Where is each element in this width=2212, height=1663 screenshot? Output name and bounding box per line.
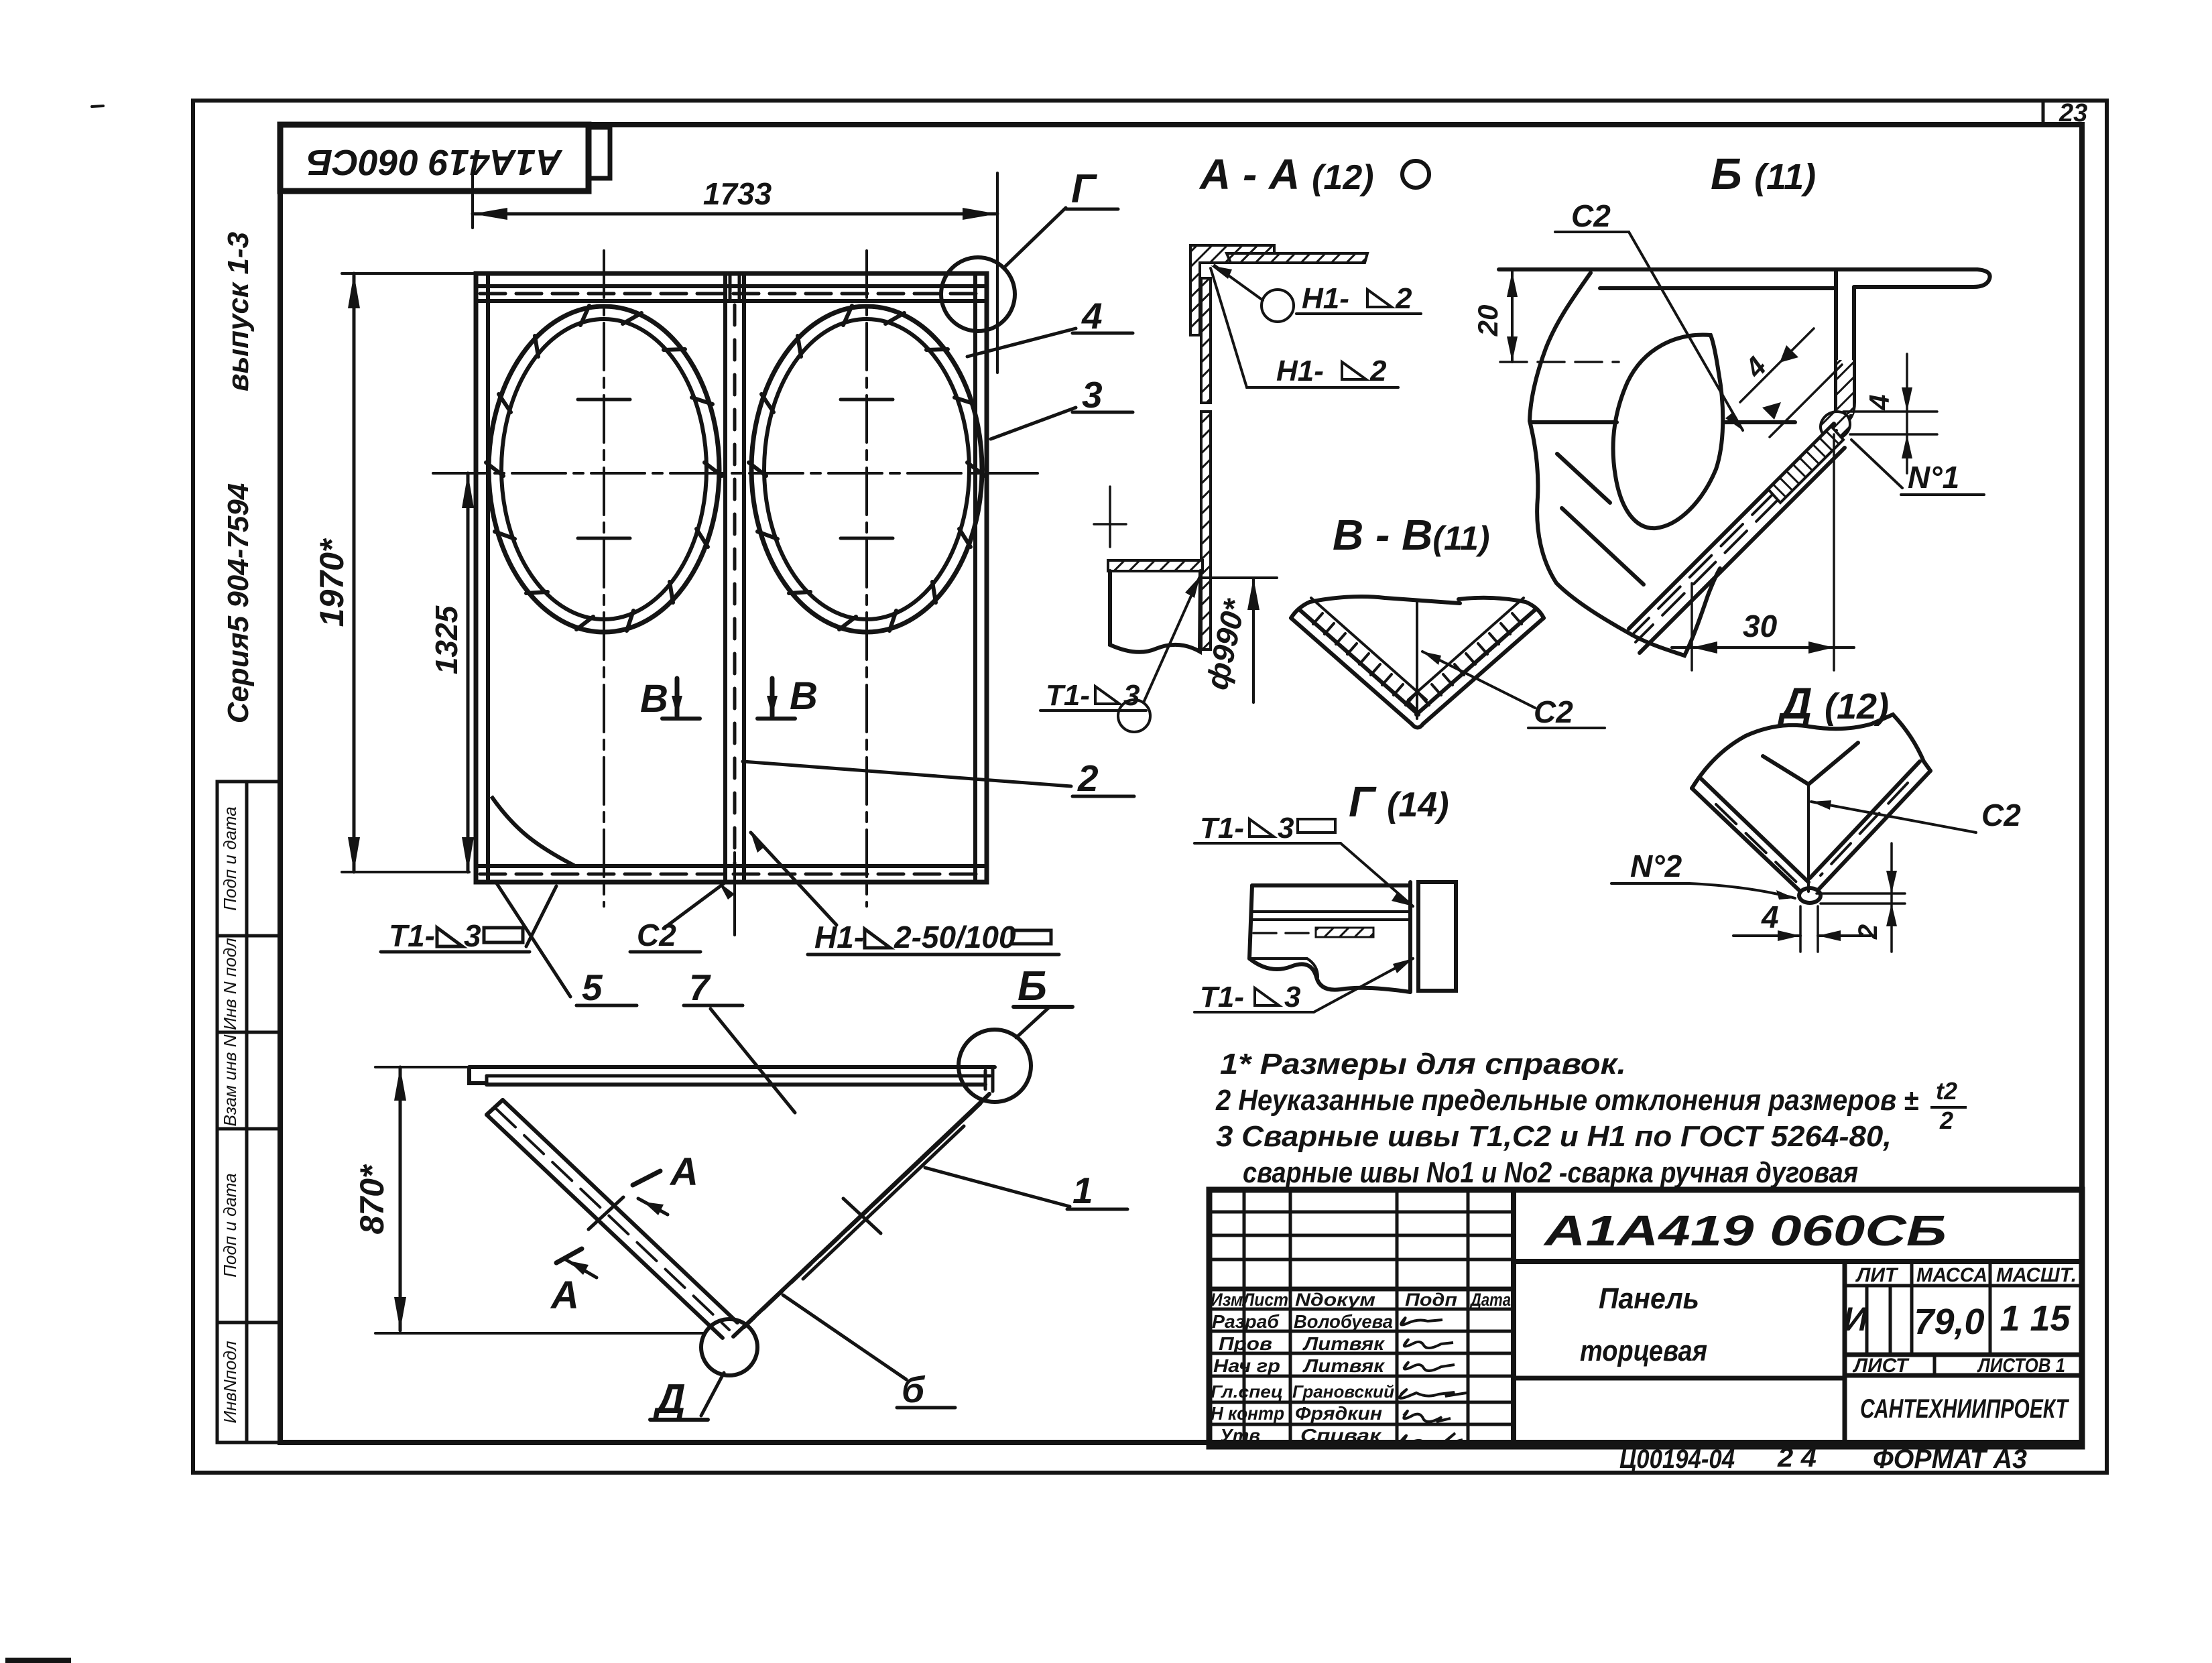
dim 1325 line	[467, 473, 470, 872]
weld label T1-d3 under panel	[389, 918, 435, 953]
sheet break wavy line bottom-left of panel	[491, 796, 575, 866]
panel outer rectangle	[476, 273, 987, 882]
top-left stamp box	[280, 125, 589, 191]
dim 2 at apex right	[1817, 892, 1905, 895]
left arm lower line	[487, 1115, 723, 1338]
lit/massa/masht column	[1843, 1261, 1847, 1446]
svg-text:б: б	[902, 1369, 926, 1410]
title block texts	[1211, 1207, 2077, 1446]
right arm top edge wavy	[1459, 598, 1544, 618]
stamp text A1A419 060SB rotated 180	[307, 142, 563, 182]
top bar mid line	[487, 1074, 990, 1078]
svg-text:1: 1	[1072, 1170, 1093, 1211]
title B (11)	[1711, 149, 1816, 198]
bottom sheet broken piece	[1110, 571, 1201, 652]
svg-text:Волобуева: Волобуева	[1294, 1311, 1393, 1332]
angle corner piece horizontal (hatched)	[1190, 245, 1274, 335]
dim 4 right vertical	[1906, 354, 1908, 473]
N1 leader to divider	[751, 833, 837, 925]
detail circle G at panel top right corner	[941, 257, 1015, 331]
S2 leader to divider bottom	[664, 883, 724, 928]
leader b to right arm	[783, 1295, 906, 1379]
ellipse 2 inner ring	[764, 319, 969, 619]
right plate outer edge	[1818, 771, 1930, 890]
V notch inner edges	[1763, 743, 1858, 784]
svg-text:Фрядкин: Фрядкин	[1295, 1403, 1382, 1424]
drawing inner frame	[280, 125, 2082, 1442]
leader 7 to top bar	[711, 1009, 795, 1113]
svg-text:Дата: Дата	[1469, 1290, 1511, 1310]
vertical web upper part (hatched)	[1201, 278, 1211, 403]
ellipse 1 lower focus cross	[578, 537, 630, 540]
bottom strip top line	[476, 864, 987, 868]
leader item 3	[991, 408, 1076, 439]
svg-text:Т1-: Т1-	[1200, 981, 1244, 1013]
label 2 with underline	[1077, 757, 1099, 799]
vertical lip left line	[1834, 269, 1838, 434]
bottom horizontal member (hatched)	[1108, 560, 1203, 571]
straight edge right segment	[1725, 420, 1795, 424]
arrow up	[348, 273, 360, 308]
dim 870 top ext	[375, 1066, 483, 1068]
arrow right	[963, 208, 997, 220]
label H1-d2 second	[1276, 355, 1324, 387]
right plate inner edge	[1810, 761, 1920, 878]
vertical lip right line with bottom curl	[1837, 287, 1854, 426]
svg-text:Нач гр: Нач гр	[1213, 1355, 1280, 1376]
svg-text:ЛИТ: ЛИТ	[1855, 1264, 1899, 1286]
S2 leader arrow to center	[1422, 652, 1535, 708]
ellipse 1 outer ring	[489, 306, 719, 632]
left plate inner edge	[1701, 779, 1808, 882]
svg-text:2: 2	[1077, 757, 1099, 799]
top strip dashed centerline	[480, 292, 983, 296]
svg-text:В: В	[790, 674, 818, 718]
right arm ladder rungs	[1512, 613, 1522, 624]
svg-text:МАСШТ.: МАСШТ.	[1996, 1264, 2077, 1286]
divider tick top strip	[729, 275, 732, 301]
svg-text:Утв: Утв	[1220, 1425, 1260, 1446]
svg-text:Инв N подл: Инв N подл	[220, 938, 240, 1030]
svg-text:2 Неуказанные предельные откло: 2 Неуказанные предельные отклонения разм…	[1215, 1084, 1918, 1117]
svg-text:3 Сварные швы Т1,С2 и Н1 по: 3 Сварные швы Т1,С2 и Н1 по ГОСТ 5264-80…	[1216, 1120, 1892, 1153]
left margin cells table	[217, 782, 280, 1442]
weld triangle symbol	[437, 928, 463, 946]
weld strip hatched	[1316, 928, 1373, 937]
scan artifact bar bottom-left	[5, 1658, 71, 1663]
svg-text:ИзмЛист: ИзмЛист	[1211, 1290, 1288, 1310]
svg-text:3: 3	[1284, 981, 1300, 1013]
weld tick marks ellipse 2	[749, 306, 985, 631]
right arm outer line	[1423, 618, 1544, 724]
svg-text:Взам инв N: Взам инв N	[220, 1034, 240, 1126]
diagonal fold lines bottom-left	[1557, 454, 1610, 503]
left margin vertical text: vypusk 1-3	[222, 232, 255, 391]
svg-text:t2: t2	[1936, 1077, 1957, 1105]
svg-text:1* Размеры для справок.: 1* Размеры для справок.	[1220, 1048, 1626, 1081]
svg-text:Д: Д	[652, 1376, 686, 1422]
label 7 with underline	[689, 967, 711, 1008]
svg-text:Подп и дата: Подп и дата	[220, 1173, 240, 1278]
right arm section tick	[843, 1198, 881, 1233]
label D with underline	[652, 1376, 686, 1422]
svg-text:2: 2	[1369, 355, 1387, 387]
label N1	[1851, 440, 1902, 488]
S2 label with leader	[1811, 802, 1976, 833]
fraction bar	[1930, 1106, 1967, 1109]
left table / title area divider	[1511, 1190, 1516, 1446]
S2 label top with long leader	[1571, 198, 1611, 233]
inner horizontal lines	[1251, 910, 1410, 913]
ellipse 2 upper focus cross	[841, 398, 893, 402]
central divider left line	[723, 273, 727, 882]
section A lower mark	[556, 1249, 582, 1263]
title D (12)	[1777, 678, 1889, 728]
top wavy edge	[1745, 715, 1930, 771]
section symbol circle	[1402, 161, 1429, 188]
flange lower line	[1600, 286, 1836, 290]
svg-text:Подп: Подп	[1405, 1290, 1458, 1310]
right arm top cap	[971, 1094, 989, 1113]
dim text 870*	[353, 1164, 391, 1234]
straight edge left segment	[1530, 420, 1617, 424]
svg-text:ФОРМАТ А3: ФОРМАТ А3	[1873, 1444, 2027, 1474]
left arm inner line	[1311, 598, 1426, 700]
centerline cross above member	[1109, 487, 1111, 547]
page number box 23	[2042, 101, 2045, 125]
dim f990 vertical line	[1252, 578, 1255, 702]
corner arrow	[1211, 265, 1232, 279]
section A upper mark	[633, 1171, 660, 1185]
svg-text:79,0: 79,0	[1914, 1302, 1984, 1342]
dim 20 top ext	[1500, 268, 1562, 271]
center vertical line	[1416, 602, 1418, 719]
divider bottom cross ext	[733, 853, 736, 935]
svg-text:Грановский: Грановский	[1292, 1381, 1394, 1402]
left arm dashed center	[496, 1109, 729, 1330]
title G (14)	[1349, 778, 1449, 826]
dashed lines in arms	[1716, 804, 1796, 882]
leader second to corner	[1211, 268, 1271, 387]
ellipse 1 inner ring	[501, 319, 706, 619]
label 3 with underline	[1082, 374, 1103, 416]
apex tip	[1412, 724, 1423, 728]
right arm lower line	[733, 1113, 971, 1337]
label T1-d3 (bottom)	[1200, 981, 1244, 1013]
svg-text:4: 4	[1863, 394, 1895, 410]
left plate outer edge	[1692, 788, 1800, 891]
dim 4 at apex	[1799, 906, 1802, 952]
leader from bottom label to block	[1314, 959, 1413, 1012]
svg-text:Литвяк: Литвяк	[1302, 1355, 1386, 1376]
left arm top cap	[487, 1100, 503, 1115]
svg-text:1733: 1733	[703, 176, 772, 211]
section mark V right: letter	[790, 674, 818, 718]
svg-text:4: 4	[1761, 900, 1779, 934]
bottom broken cut	[1249, 959, 1410, 992]
small arrow on divider bottom	[719, 882, 735, 900]
svg-text:Серия5 904-7594: Серия5 904-7594	[222, 483, 255, 724]
svg-text:3: 3	[1082, 374, 1103, 416]
dim 4 diagonal text	[1738, 351, 1772, 384]
inclined chute plate lower edge	[1640, 448, 1845, 653]
right end block	[1418, 882, 1456, 991]
svg-text:2: 2	[1939, 1107, 1953, 1134]
svg-text:сварные швы No1 и No2 -свар: сварные швы No1 и No2 -сварка ручная дуг…	[1243, 1156, 1858, 1189]
dim 1733 line	[473, 212, 997, 216]
inner window (teardrop) outline	[1613, 335, 1723, 529]
svg-text:Nдокум: Nдокум	[1295, 1290, 1375, 1310]
weld tick marks ellipse 1	[486, 306, 722, 631]
right arm inner extra line	[803, 1126, 964, 1279]
svg-text:С2: С2	[1981, 798, 2021, 833]
left arm second line	[1299, 609, 1418, 715]
leader with circle	[1262, 290, 1294, 322]
svg-text:Подп и дата: Подп и дата	[220, 806, 240, 911]
svg-text:2: 2	[1395, 282, 1412, 315]
dim 1970 top ext	[342, 272, 479, 275]
section title A-A (12)	[1199, 150, 1374, 198]
left margin vertical text: seriya	[222, 483, 255, 724]
label B with underline	[1018, 963, 1047, 1009]
svg-text:20: 20	[1472, 305, 1503, 337]
label G	[1071, 166, 1098, 211]
svg-text:Б (11): Б (11)	[1711, 149, 1816, 198]
left arm section tick	[589, 1197, 623, 1229]
channel body outline	[1252, 883, 1410, 887]
svg-text:Т1-: Т1-	[1046, 679, 1090, 712]
dim text f990* rotated	[1199, 595, 1252, 692]
svg-text:ИнвNподл: ИнвNподл	[220, 1341, 240, 1423]
ellipse 2 vertical centerline	[865, 251, 868, 906]
leader to D label	[701, 1373, 724, 1416]
dim 870 line	[399, 1067, 402, 1331]
label 1 with underline	[1072, 1170, 1093, 1211]
weld bead N1 at lip bottom (hatched comma)	[1821, 412, 1850, 440]
common horizontal centerline	[433, 472, 1038, 475]
svg-text:Н1-: Н1-	[1276, 355, 1324, 387]
weld hatch band on incline	[1768, 426, 1843, 503]
central divider inner dashed line	[733, 305, 737, 865]
top strip line	[476, 284, 987, 288]
page number 23	[2059, 99, 2087, 127]
leader to B label	[1016, 1007, 1050, 1038]
left frame member inner line	[486, 273, 490, 882]
left end step	[469, 1067, 487, 1083]
dim text 20 rotated	[1472, 305, 1503, 337]
svg-text:Б: Б	[1018, 963, 1047, 1009]
section V right arrow	[757, 678, 795, 719]
stamp box side notch	[589, 127, 610, 178]
arrow down	[462, 837, 474, 872]
svg-text:Н1-: Н1-	[814, 920, 864, 954]
inclined chute plate upper edge	[1629, 424, 1834, 629]
right arm upper line	[753, 1094, 989, 1318]
dim 4 diagonal tick lines	[1740, 328, 1814, 402]
label N1-d2-50/100	[814, 920, 864, 954]
svg-text:3: 3	[464, 918, 481, 953]
svg-text:Литвяк: Литвяк	[1302, 1333, 1386, 1354]
flat strip on top (hatched)	[1227, 253, 1367, 263]
left margin cell labels	[220, 806, 240, 1423]
svg-text:Т1-: Т1-	[389, 918, 435, 953]
dim 870 bottom ext	[375, 1332, 705, 1335]
big designation cell divider	[1514, 1259, 2082, 1264]
bottom strip dashed centerline	[480, 873, 983, 876]
svg-text:2 4: 2 4	[1777, 1443, 1817, 1473]
svg-text:Спивак: Спивак	[1300, 1425, 1382, 1446]
left arm top edge wavy	[1291, 597, 1460, 618]
left arm ladder rungs	[1313, 613, 1323, 624]
svg-text:3: 3	[1278, 812, 1294, 845]
dim 1970 line	[353, 273, 356, 872]
label S2	[1534, 694, 1573, 729]
svg-text:N°2: N°2	[1630, 849, 1682, 883]
label S2 under panel	[637, 918, 676, 952]
svg-text:А1А419 060СБ: А1А419 060СБ	[1542, 1207, 1947, 1255]
name cell divider	[1514, 1376, 1845, 1381]
detail circle B top right	[959, 1030, 1031, 1102]
svg-text:МАССА: МАССА	[1916, 1264, 1987, 1286]
label T1-d3 bottom left	[1046, 679, 1090, 712]
right arm inner line	[1408, 598, 1524, 700]
left arm upper line	[503, 1100, 737, 1322]
svg-text:Ц00194-04: Ц00194-04	[1619, 1444, 1735, 1474]
leader from top label to right block	[1341, 843, 1413, 906]
revision table verticals	[1244, 1190, 1468, 1446]
right arm dashed center	[744, 1104, 981, 1328]
svg-text:САНТЕХНИИПРОЕКТ: САНТЕХНИИПРОЕКТ	[1860, 1394, 2070, 1424]
top strip lower line	[476, 299, 987, 303]
ellipse 2 outer ring	[751, 306, 982, 632]
svg-text:Панель: Панель	[1599, 1282, 1699, 1315]
arrow left	[473, 208, 507, 220]
section V left arrow	[662, 678, 700, 719]
leader to G label	[1003, 208, 1066, 268]
bottom strip text	[1619, 1443, 2027, 1474]
svg-text:N°1: N°1	[1908, 460, 1959, 495]
detail circle D at apex	[701, 1319, 757, 1375]
svg-text:В: В	[640, 677, 668, 721]
scan artifact dash top-left	[92, 106, 103, 107]
svg-text:Пров: Пров	[1219, 1333, 1272, 1354]
dim 1733 left ext	[471, 173, 474, 228]
dim 1970 bottom ext	[342, 871, 469, 873]
vertical web lower part (hatched)	[1201, 412, 1211, 650]
ellipse 1 upper focus cross	[578, 398, 630, 402]
top flange line with right hook	[1499, 269, 1990, 287]
right end ticks	[984, 1070, 987, 1089]
title block outer box	[1209, 1190, 2082, 1446]
N2 label with leader	[1630, 849, 1682, 883]
leader T1 to junction	[1144, 576, 1200, 702]
label underline	[381, 950, 530, 954]
ellipse 2 lower focus cross	[841, 537, 893, 540]
label b (small) with underline	[902, 1369, 926, 1410]
right arm second line	[1416, 609, 1536, 715]
svg-text:1325: 1325	[429, 605, 464, 674]
svg-text:2-50/100: 2-50/100	[894, 920, 1016, 954]
svg-text:Г: Г	[1071, 166, 1098, 211]
svg-text:Д (12): Д (12)	[1777, 678, 1889, 728]
dim f990 ref line	[1203, 576, 1277, 579]
dim 30	[1691, 583, 1693, 670]
svg-text:2: 2	[1853, 924, 1883, 940]
revision table rows	[1209, 1212, 1514, 1424]
svg-text:23: 23	[2059, 99, 2087, 127]
svg-text:А: А	[669, 1150, 698, 1194]
apex small circle	[1799, 888, 1821, 903]
svg-text:Разраб: Разраб	[1212, 1311, 1280, 1332]
svg-text:Гл.спец: Гл.спец	[1211, 1381, 1283, 1402]
section mark V left: letter	[640, 677, 668, 721]
dim 1733 right ext	[996, 173, 999, 373]
svg-text:3: 3	[1123, 679, 1140, 712]
svg-text:выпуск 1-3: выпуск 1-3	[222, 232, 255, 391]
weld hatch inside lip	[1837, 360, 1853, 414]
ellipse 1 vertical centerline	[603, 251, 605, 906]
svg-text:Т1-: Т1-	[1200, 812, 1244, 845]
svg-text:Н1-: Н1-	[1302, 282, 1349, 315]
svg-text:ЛИСТОВ 1: ЛИСТОВ 1	[1977, 1355, 2065, 1377]
svg-text:30: 30	[1743, 609, 1778, 643]
left arm outer line	[1291, 618, 1412, 724]
svg-text:870*: 870*	[353, 1164, 391, 1234]
arrow up	[462, 473, 474, 508]
svg-text:И: И	[1843, 1300, 1868, 1338]
left plate top edge	[1692, 736, 1745, 788]
center vertical line	[1807, 784, 1810, 891]
svg-text:7: 7	[689, 967, 711, 1008]
svg-text:А: А	[550, 1274, 579, 1317]
svg-text:торцевая: торцевая	[1580, 1335, 1707, 1367]
svg-text:1 15: 1 15	[2000, 1298, 2071, 1339]
dim 20 bottom dashed ref	[1500, 361, 1619, 363]
label 5 with underline	[582, 967, 603, 1008]
svg-text:С2: С2	[1571, 198, 1611, 233]
inclined dashed lines	[1636, 437, 1841, 642]
right frame member inner line	[973, 273, 977, 882]
apex small weld tick	[1408, 701, 1417, 711]
svg-text:5: 5	[582, 967, 603, 1008]
label T1-d3 with box (top)	[1200, 812, 1244, 845]
leader to panel corner	[526, 886, 556, 946]
svg-text:ЛИСТ: ЛИСТ	[1852, 1355, 1910, 1377]
svg-text:С2: С2	[1534, 694, 1573, 729]
dashed line	[1253, 932, 1374, 934]
svg-text:4: 4	[1081, 295, 1103, 336]
dim 4 right text	[1863, 394, 1895, 410]
svg-text:1970*: 1970*	[313, 538, 351, 627]
label H1-d2 first	[1302, 282, 1349, 315]
sheet outer border	[193, 101, 2107, 1473]
dim 20 vertical line	[1511, 271, 1514, 362]
leader item 2	[743, 761, 1071, 786]
leader item 4	[967, 328, 1076, 357]
leader 5 already drawn; label 1 leader	[925, 1168, 1070, 1207]
signatures (handwritten squiggles)	[1400, 1318, 1467, 1446]
label 4 with underline	[1081, 295, 1103, 336]
arrow down	[348, 837, 360, 872]
svg-text:Н контр: Н контр	[1211, 1403, 1284, 1424]
top bar bottom edge	[487, 1083, 985, 1087]
top bar top edge	[469, 1065, 995, 1069]
big torn sheet outline	[1530, 273, 1720, 656]
svg-text:А1А419 060СБ: А1А419 060СБ	[307, 142, 563, 182]
central divider right line	[742, 273, 746, 882]
title V-V (11)	[1333, 511, 1490, 559]
